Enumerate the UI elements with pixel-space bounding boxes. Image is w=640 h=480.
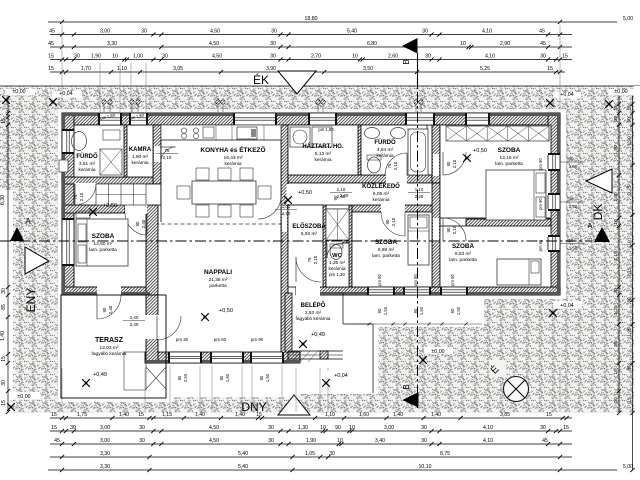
svg-text:1,90: 1,90 (627, 136, 633, 146)
svg-text:1,10: 1,10 (337, 187, 346, 192)
svg-text:ÉNY: ÉNY (23, 288, 38, 313)
svg-text:15: 15 (51, 412, 57, 418)
svg-text:1,40: 1,40 (393, 412, 403, 418)
svg-text:1,40: 1,40 (431, 412, 441, 418)
svg-text:10: 10 (627, 240, 633, 246)
svg-text:2,10: 2,10 (391, 217, 396, 226)
svg-text:15: 15 (563, 425, 569, 431)
svg-text:2,70: 2,70 (311, 53, 321, 59)
svg-text:10: 10 (352, 53, 358, 59)
svg-text:kerámia: kerámia (78, 167, 95, 173)
svg-text:2,10: 2,10 (282, 211, 291, 216)
svg-text:90: 90 (177, 375, 182, 380)
svg-text:30: 30 (1, 288, 7, 294)
svg-text:2,40: 2,40 (130, 322, 139, 327)
svg-text:15: 15 (1, 400, 7, 406)
svg-text:15: 15 (627, 105, 633, 111)
svg-text:2,10: 2,10 (163, 155, 172, 160)
svg-text:3,61 m²: 3,61 m² (79, 161, 96, 167)
svg-text:kerámia: kerámia (372, 197, 389, 203)
svg-text:pm 90: pm 90 (251, 337, 264, 342)
svg-text:10,10: 10,10 (419, 464, 432, 470)
svg-text:18,80: 18,80 (305, 16, 318, 22)
svg-text:pm 90: pm 90 (538, 198, 543, 210)
svg-text:30: 30 (422, 28, 428, 34)
svg-text:30: 30 (162, 53, 168, 59)
svg-text:90: 90 (569, 157, 574, 162)
svg-text:75: 75 (165, 148, 170, 153)
svg-text:30: 30 (627, 297, 633, 303)
svg-text:5,40: 5,40 (238, 451, 248, 457)
svg-text:4,50: 4,50 (212, 53, 222, 59)
svg-text:SZOBA: SZOBA (375, 239, 397, 246)
svg-text:2,10: 2,10 (79, 192, 84, 201)
svg-text:4,10: 4,10 (483, 438, 493, 444)
svg-text:3,30: 3,30 (107, 41, 117, 47)
svg-text:5,40: 5,40 (238, 464, 248, 470)
svg-text:pm 1,80: pm 1,80 (318, 127, 334, 132)
svg-text:2,10: 2,10 (452, 225, 457, 234)
svg-text:pm 90: pm 90 (450, 274, 455, 286)
svg-text:30: 30 (1, 380, 7, 386)
svg-text:5,13 m²: 5,13 m² (315, 151, 332, 157)
svg-text:90: 90 (333, 195, 338, 200)
svg-text:4,94 m²: 4,94 m² (377, 147, 394, 153)
svg-text:85: 85 (627, 365, 633, 371)
svg-text:30: 30 (613, 288, 619, 294)
svg-text:2,63 m²: 2,63 m² (305, 310, 322, 316)
svg-text:WC: WC (332, 253, 342, 259)
svg-text:2,15: 2,15 (613, 251, 619, 261)
svg-text:90: 90 (135, 221, 140, 226)
svg-text:75: 75 (307, 257, 312, 262)
svg-text:16,43 m²: 16,43 m² (224, 155, 243, 161)
svg-text:3,40: 3,40 (375, 438, 385, 444)
svg-text:10: 10 (460, 41, 466, 47)
svg-text:90: 90 (219, 375, 224, 380)
svg-text:12,03 m²: 12,03 m² (100, 345, 119, 351)
svg-text:30: 30 (540, 425, 546, 431)
svg-text:30: 30 (270, 53, 276, 59)
svg-text:4,10: 4,10 (485, 53, 495, 59)
svg-text:2,50: 2,50 (183, 373, 188, 382)
svg-text:BELÉPŐ: BELÉPŐ (301, 301, 326, 309)
svg-text:30: 30 (271, 28, 277, 34)
svg-text:1,90: 1,90 (91, 53, 101, 59)
svg-text:2,60: 2,60 (388, 53, 398, 59)
svg-text:90: 90 (450, 308, 455, 313)
svg-text:2,10: 2,10 (452, 159, 457, 168)
svg-text:15: 15 (48, 53, 54, 59)
svg-text:3,30: 3,30 (100, 464, 110, 470)
svg-text:13,16 m²: 13,16 m² (500, 155, 519, 161)
svg-text:2,10: 2,10 (393, 161, 398, 170)
svg-text:75: 75 (387, 163, 392, 168)
svg-text:FÜRDŐ: FÜRDŐ (374, 139, 396, 146)
svg-text:HÁZTART. HG.: HÁZTART. HG. (302, 143, 344, 150)
svg-text:1,35 m²: 1,35 m² (329, 260, 346, 266)
svg-text:A: A (25, 217, 31, 226)
svg-text:15: 15 (547, 66, 553, 72)
svg-text:15: 15 (138, 412, 144, 418)
svg-text:10: 10 (337, 438, 343, 444)
svg-text:ELŐSZOBA: ELŐSZOBA (292, 223, 326, 230)
svg-text:3,05: 3,05 (173, 66, 183, 72)
svg-text:15: 15 (1, 356, 7, 362)
svg-text:1,90: 1,90 (306, 438, 316, 444)
svg-text:3,90: 3,90 (266, 66, 276, 72)
svg-text:lam. parketta: lam. parketta (372, 253, 400, 259)
svg-text:±0,00: ±0,00 (12, 89, 25, 95)
svg-text:pm 90: pm 90 (377, 274, 382, 286)
svg-text:5,00: 5,00 (623, 16, 633, 22)
svg-text:75: 75 (73, 194, 78, 199)
svg-text:1,10: 1,10 (325, 412, 335, 418)
svg-text:10: 10 (112, 53, 118, 59)
svg-text:+0,04: +0,04 (334, 373, 347, 379)
svg-text:4,10: 4,10 (483, 425, 493, 431)
svg-text:9,53 m²: 9,53 m² (455, 251, 472, 257)
svg-text:2,40: 2,40 (415, 194, 424, 199)
svg-text:+0,50: +0,50 (298, 190, 312, 196)
svg-text:15: 15 (1, 118, 7, 124)
svg-text:85: 85 (1, 304, 7, 310)
svg-text:15: 15 (51, 425, 57, 431)
svg-text:2,15: 2,15 (627, 267, 633, 277)
svg-text:2,40: 2,40 (108, 305, 113, 314)
svg-text:6,30: 6,30 (0, 195, 6, 205)
svg-text:fagyálló kerámia: fagyálló kerámia (296, 316, 331, 322)
svg-text:3,00: 3,00 (100, 28, 110, 34)
svg-text:30: 30 (74, 53, 80, 59)
svg-text:1,00: 1,00 (282, 204, 291, 209)
svg-text:kerámia: kerámia (131, 160, 148, 166)
svg-text:45: 45 (48, 41, 54, 47)
svg-text:1,80: 1,80 (225, 373, 230, 382)
svg-text:1,40: 1,40 (613, 192, 619, 202)
svg-text:1,40: 1,40 (130, 315, 139, 320)
svg-text:+0,04: +0,04 (59, 91, 72, 97)
svg-text:1,50: 1,50 (265, 373, 270, 382)
svg-text:45: 45 (540, 41, 546, 47)
svg-text:3,00: 3,00 (100, 425, 110, 431)
svg-text:kerámia: kerámia (376, 153, 393, 159)
svg-text:90: 90 (259, 375, 264, 380)
svg-text:15: 15 (613, 369, 619, 375)
svg-text:30: 30 (70, 425, 76, 431)
svg-text:30: 30 (425, 53, 431, 59)
svg-text:1,40: 1,40 (195, 412, 205, 418)
svg-text:pm 30: pm 30 (176, 337, 189, 342)
svg-text:30: 30 (627, 117, 633, 123)
svg-text:1,50: 1,50 (569, 164, 578, 169)
svg-text:KÖZLEKEDŐ: KÖZLEKEDŐ (362, 183, 400, 190)
svg-text:21,38 m²: 21,38 m² (209, 277, 228, 283)
svg-text:4,50: 4,50 (210, 28, 220, 34)
svg-text:90: 90 (569, 197, 574, 202)
svg-text:90: 90 (385, 219, 390, 224)
svg-text:1,50: 1,50 (456, 306, 461, 315)
svg-text:1,25: 1,25 (613, 305, 619, 315)
svg-text:30: 30 (141, 28, 147, 34)
svg-text:fagyálló kerámia: fagyálló kerámia (92, 351, 127, 357)
svg-text:FÜRDŐ: FÜRDŐ (76, 153, 98, 160)
svg-text:SZOBA: SZOBA (498, 147, 521, 154)
svg-text:parketta: parketta (209, 283, 227, 289)
svg-text:3,00: 3,00 (100, 438, 110, 444)
svg-text:NAPPALI: NAPPALI (204, 269, 232, 276)
svg-text:30: 30 (139, 425, 145, 431)
svg-text:45: 45 (542, 438, 548, 444)
svg-text:2,10: 2,10 (313, 255, 318, 264)
svg-text:5,92 m²: 5,92 m² (301, 231, 318, 237)
svg-text:+0,49: +0,49 (93, 372, 107, 378)
svg-text:1,40: 1,40 (119, 412, 129, 418)
svg-text:ÉK: ÉK (253, 72, 269, 87)
svg-text:30: 30 (270, 41, 276, 47)
svg-text:pm 90: pm 90 (538, 158, 543, 170)
svg-text:KONYHA és ÉTKEZŐ: KONYHA és ÉTKEZŐ (200, 145, 265, 154)
svg-text:30: 30 (613, 116, 619, 122)
svg-text:30: 30 (421, 425, 427, 431)
svg-text:lam. parketta: lam. parketta (89, 247, 117, 253)
svg-text:10: 10 (320, 425, 326, 431)
svg-text:+0,50: +0,50 (103, 203, 117, 209)
svg-text:1,10: 1,10 (117, 66, 127, 72)
svg-text:SZOBA: SZOBA (92, 233, 115, 240)
svg-text:30: 30 (613, 397, 619, 403)
svg-text:15: 15 (562, 53, 568, 59)
svg-text:KAMRA: KAMRA (129, 147, 152, 153)
svg-text:SZOBA: SZOBA (452, 243, 474, 250)
svg-text:45: 45 (54, 438, 60, 444)
svg-text:4,50: 4,50 (209, 438, 219, 444)
svg-text:lam. parketta: lam. parketta (449, 257, 477, 263)
svg-text:1,50: 1,50 (569, 246, 578, 251)
svg-text:3,00: 3,00 (384, 425, 394, 431)
svg-text:30: 30 (268, 425, 274, 431)
svg-text:DK: DK (591, 204, 605, 221)
svg-text:30: 30 (268, 438, 274, 444)
svg-text:85: 85 (613, 341, 619, 347)
svg-text:1,15: 1,15 (162, 412, 172, 418)
svg-text:1,75: 1,75 (77, 412, 87, 418)
svg-text:4,10: 4,10 (482, 28, 492, 34)
svg-text:1,50: 1,50 (419, 306, 424, 315)
svg-text:B: B (402, 59, 411, 64)
svg-text:+0,04: +0,04 (560, 92, 573, 98)
svg-text:kerámia: kerámia (224, 161, 241, 167)
svg-text:15: 15 (48, 66, 54, 72)
svg-text:90: 90 (446, 161, 451, 166)
svg-text:1,10: 1,10 (415, 187, 424, 192)
svg-text:4,50: 4,50 (209, 41, 219, 47)
svg-text:TERASZ: TERASZ (95, 337, 124, 344)
svg-text:1,50: 1,50 (569, 204, 578, 209)
svg-text:10: 10 (349, 425, 355, 431)
svg-text:30: 30 (139, 438, 145, 444)
svg-text:3,30: 3,30 (100, 451, 110, 457)
svg-text:1,40: 1,40 (0, 331, 6, 341)
svg-text:5,25: 5,25 (480, 66, 490, 72)
svg-text:1,30: 1,30 (298, 425, 308, 431)
svg-text:30: 30 (421, 438, 427, 444)
svg-text:4,50: 4,50 (209, 425, 219, 431)
svg-text:±0,00: ±0,00 (614, 89, 627, 95)
svg-text:90: 90 (377, 308, 382, 313)
svg-text:30: 30 (329, 451, 335, 457)
svg-text:+0,49: +0,49 (311, 332, 325, 338)
svg-text:90: 90 (102, 307, 107, 312)
svg-text:6,80: 6,80 (367, 41, 377, 47)
svg-text:3,50: 3,50 (363, 66, 373, 72)
svg-text:pm 60: pm 60 (214, 337, 227, 342)
svg-text:1,90: 1,90 (613, 145, 619, 155)
svg-text:±0,00: ±0,00 (431, 349, 444, 355)
svg-text:+0,50: +0,50 (473, 148, 487, 154)
svg-text:2,40: 2,40 (141, 219, 146, 228)
svg-text:A: A (588, 223, 593, 230)
svg-text:90: 90 (446, 227, 451, 232)
svg-text:45: 45 (539, 28, 545, 34)
svg-text:8,88 m²: 8,88 m² (378, 247, 395, 253)
svg-text:45: 45 (49, 28, 55, 34)
svg-text:3,85: 3,85 (500, 412, 510, 418)
svg-text:1,05: 1,05 (305, 451, 315, 457)
svg-text:1,90 m²: 1,90 m² (132, 154, 149, 160)
svg-text:+0,50: +0,50 (219, 308, 233, 314)
svg-text:15: 15 (627, 397, 633, 403)
svg-text:1,95: 1,95 (627, 327, 633, 337)
svg-text:1,50: 1,50 (383, 306, 388, 315)
svg-text:1,70: 1,70 (81, 66, 91, 72)
svg-text:15: 15 (613, 105, 619, 111)
svg-text:pm 1,30: pm 1,30 (329, 272, 345, 277)
svg-text:10: 10 (613, 219, 619, 225)
svg-text:5,40: 5,40 (347, 28, 357, 34)
svg-text:B: B (402, 384, 411, 389)
svg-text:30: 30 (540, 53, 546, 59)
svg-text:8,75: 8,75 (440, 451, 450, 457)
svg-text:12,60 m²: 12,60 m² (94, 241, 113, 247)
svg-text:DNY: DNY (241, 400, 266, 414)
svg-text:1,60: 1,60 (359, 412, 369, 418)
svg-text:90: 90 (335, 425, 341, 431)
svg-text:2,90: 2,90 (500, 41, 510, 47)
svg-text:2,40: 2,40 (340, 193, 349, 198)
svg-text:6,05 m²: 6,05 m² (373, 191, 390, 197)
svg-text:5,00: 5,00 (623, 464, 633, 470)
svg-text:kerámia: kerámia (314, 157, 331, 163)
svg-text:lam. parketta: lam. parketta (495, 161, 523, 167)
svg-text:±0,00: ±0,00 (17, 394, 30, 400)
svg-text:+0,04: +0,04 (560, 303, 573, 309)
svg-text:3,75: 3,75 (627, 185, 633, 195)
svg-text:15: 15 (546, 412, 552, 418)
svg-text:1,00: 1,00 (133, 53, 143, 59)
